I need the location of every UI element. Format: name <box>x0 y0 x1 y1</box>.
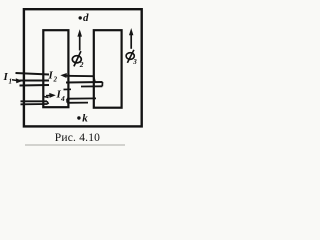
core right window <box>94 30 122 108</box>
winding wire middle leg upper turn bottom <box>66 81 103 84</box>
svg-text:1: 1 <box>9 78 13 86</box>
winding wire middle leg second turn right connector <box>101 82 103 86</box>
svg-text:2: 2 <box>53 76 58 84</box>
svg-text:4: 4 <box>60 94 65 103</box>
winding wire middle leg lower turn bottom <box>67 102 88 104</box>
scan smudge line bottom <box>25 144 125 145</box>
label PHI3 <box>126 53 134 60</box>
node d <box>79 16 82 19</box>
svg-text:Рис. 4.10: Рис. 4.10 <box>55 132 100 144</box>
flux arrow PHI3 <box>130 35 132 49</box>
current arrow I4 <box>46 94 51 96</box>
winding wire stub near middle leg left edge <box>64 88 72 90</box>
svg-text:3: 3 <box>132 58 137 66</box>
label PHI2 <box>72 56 81 63</box>
current arrow I1 <box>12 79 18 82</box>
winding wire left leg lower pair top <box>21 100 48 102</box>
winding wire middle leg upper turn top <box>66 75 94 77</box>
core outer boundary <box>24 9 142 126</box>
winding wire middle leg lower turn left connector <box>66 99 68 103</box>
svg-text:2: 2 <box>79 60 84 69</box>
current arrow I2 (points left) <box>64 74 70 76</box>
flux arrow PHI2 <box>79 36 81 51</box>
winding wire stub near I4 <box>44 97 49 98</box>
winding wire left leg turn 3 <box>20 84 50 87</box>
winding wire left leg lower pair bottom <box>21 103 48 105</box>
winding wire middle leg second turn <box>81 85 102 87</box>
svg-text:d: d <box>83 12 89 24</box>
winding wire middle leg lower turn top <box>67 97 96 99</box>
winding wire left leg turn 2 <box>20 80 50 82</box>
core left window <box>43 30 68 107</box>
node k <box>77 116 80 119</box>
winding wire left leg lower pair right connector <box>47 101 49 104</box>
winding wire middle leg upper turn right connector <box>94 76 96 82</box>
svg-text:k: k <box>82 113 88 125</box>
winding wire left leg turn 1 <box>16 73 50 75</box>
